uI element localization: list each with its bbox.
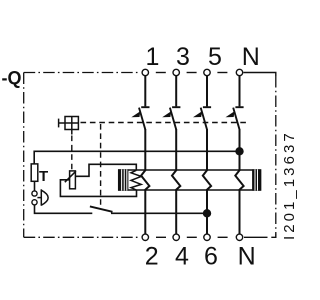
svg-text:1: 1 (145, 43, 159, 71)
svg-text:6: 6 (204, 243, 218, 271)
svg-text:4: 4 (175, 243, 189, 271)
svg-text:3: 3 (176, 43, 190, 71)
svg-text:2: 2 (145, 243, 159, 271)
svg-text:N: N (242, 43, 260, 71)
svg-text:N: N (238, 243, 256, 271)
svg-text:-Q: -Q (2, 68, 22, 88)
svg-text:5: 5 (208, 43, 222, 71)
svg-text:I201_13637: I201_13637 (281, 130, 298, 240)
svg-text:T: T (39, 168, 48, 185)
